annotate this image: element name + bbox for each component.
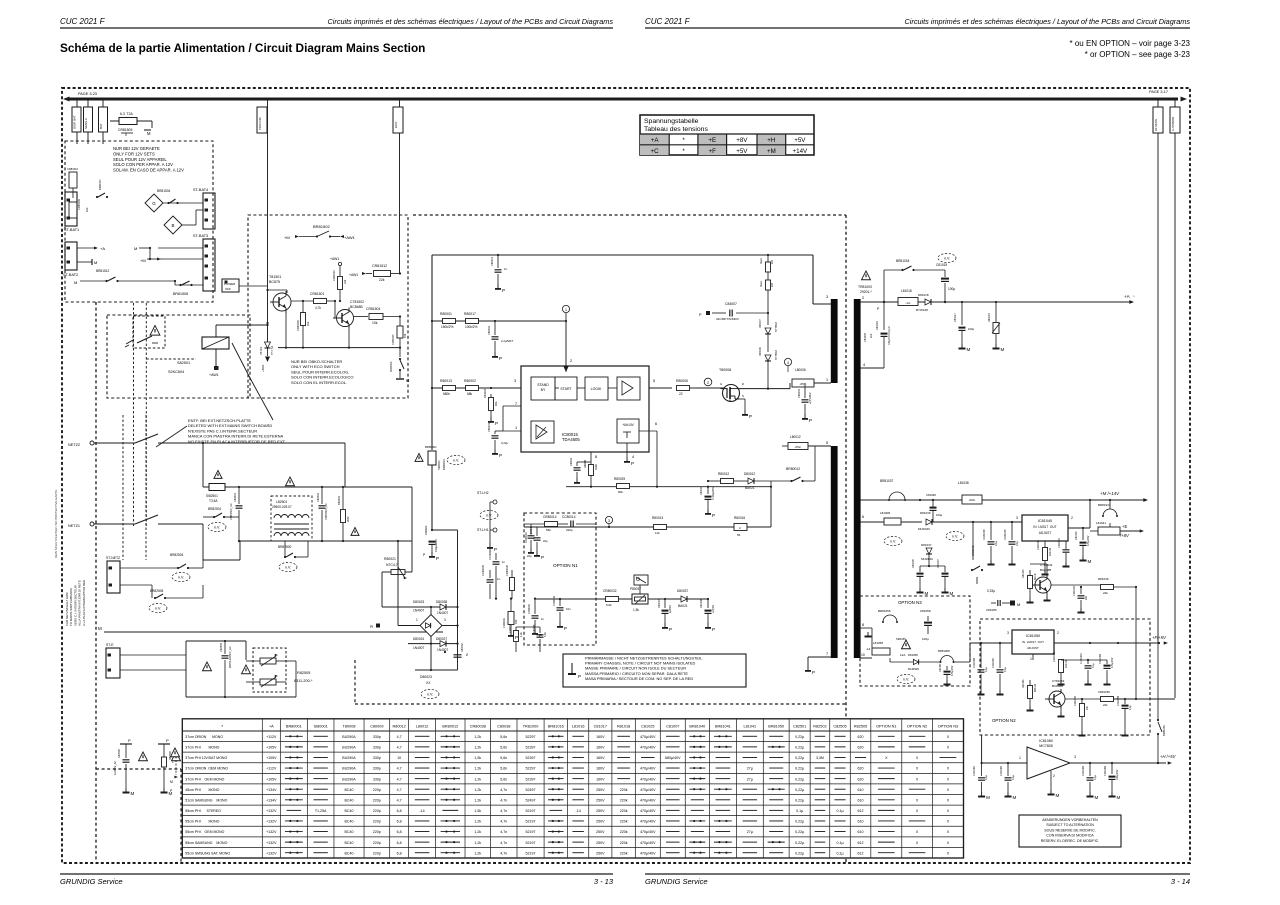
svg-text:6,8: 6,8 (397, 830, 402, 834)
svg-text:BR81050: BR81050 (768, 725, 784, 729)
svg-text:P: P (539, 633, 542, 638)
svg-text:60k: 60k (618, 490, 623, 494)
svg-text:-14: -14 (866, 647, 871, 651)
snubber capacitor C84007 (699, 302, 768, 321)
svg-text:4,7n: 4,7n (500, 841, 507, 845)
svg-text:10n: 10n (566, 607, 571, 611)
warning triangle relay (150, 326, 160, 336)
svg-text:DISP. BAT: DISP. BAT (73, 115, 77, 129)
transformer pin8 wire (860, 628, 872, 651)
svg-text:+112V: +112V (266, 735, 277, 739)
svg-text:0,22µ: 0,22µ (795, 735, 804, 739)
svg-text:BR81941: BR81941 (1098, 503, 1111, 507)
svg-text:220p: 220p (373, 851, 381, 855)
capacitor CR81052 470u (1099, 653, 1114, 685)
svg-text:33n/MKT/S/630V: 33n/MKT/S/630V (716, 317, 739, 321)
footer left: page number (594, 877, 614, 886)
svg-text:ST-BAT2: ST-BAT2 (63, 273, 78, 277)
svg-text:22k: 22k (343, 279, 347, 284)
svg-text:C80037: C80037 (658, 599, 661, 608)
svg-text:OPTION N3: OPTION N3 (898, 600, 922, 605)
battery option dashed box (65, 141, 213, 302)
svg-text:250V: 250V (596, 798, 605, 802)
jumper BR81048 (971, 522, 983, 584)
capacitor R82508 with P and M (158, 738, 173, 796)
svg-text:P: P (631, 461, 634, 466)
resistor R81043 (1022, 569, 1037, 604)
svg-text:CR80026: CR80026 (505, 564, 509, 576)
vertical text: to mains switchboard (65, 579, 86, 626)
jumper BR81037 (880, 479, 906, 501)
svg-text:CR81059: CR81059 (1098, 690, 1110, 694)
capacitor C81037 (920, 554, 954, 596)
svg-text:+Ub14V: +Ub14V (622, 423, 634, 427)
resistor CR81509 (69, 198, 89, 218)
svg-text:BR81055: BR81055 (878, 609, 891, 613)
svg-text:* or OPTION – see page 3-23: * or OPTION – see page 3-23 (1085, 50, 1191, 59)
svg-text:M: M (1001, 347, 1005, 352)
svg-text:C82505: C82505 (219, 642, 223, 652)
svg-text:Tableau des tensions: Tableau des tensions (644, 126, 708, 133)
svg-text:M: M (1017, 602, 1020, 607)
svg-text:52197: 52197 (526, 820, 536, 824)
terminal NETZ2 (68, 441, 135, 447)
svg-text:4,7: 4,7 (397, 746, 402, 750)
svg-text:0: 0 (125, 133, 127, 137)
wire CT81043 collector (1030, 541, 1047, 575)
fuse SI81055 (896, 637, 911, 657)
svg-text:0,1µ: 0,1µ (985, 667, 988, 672)
svg-text:4,7n: 4,7n (500, 809, 507, 813)
wire IC81050 out (1054, 642, 1160, 644)
svg-text:37cm PHI OEM MONO: 37cm PHI OEM MONO (185, 777, 224, 781)
eco bottom rail (278, 347, 401, 349)
variants table row 37cm PHI 12V/SAT MONO (185, 756, 956, 760)
svg-text:BR81512: BR81512 (96, 269, 110, 273)
svg-text:470µ/40V: 470µ/40V (640, 767, 656, 771)
svg-text:470µ/40V: 470µ/40V (640, 735, 656, 739)
capacitor CC81084 (1000, 763, 1017, 800)
label R82505 (294, 671, 313, 683)
hot area pocket dashed borders (96, 660, 355, 862)
svg-text:27µ: 27µ (747, 830, 753, 834)
svg-text:11k: 11k (655, 531, 660, 535)
connector box U-STANDBY (1170, 107, 1180, 133)
resistor R81019 (988, 302, 1005, 352)
diode D80037 BAV21 (677, 589, 688, 608)
svg-text:R81004: R81004 (483, 388, 487, 398)
svg-text:NETZ1: NETZ1 (68, 524, 80, 528)
svg-text:SOLAM. EN CASO DE APPAR. A 12V: SOLAM. EN CASO DE APPAR. A 12V (113, 168, 184, 173)
jumper BR81058 (919, 649, 970, 663)
svg-text:2n2: 2n2 (869, 333, 873, 338)
diode D80007 BYT56M (759, 319, 778, 352)
svg-text:IC81080: IC81080 (1039, 739, 1053, 743)
svg-text:C84007: C84007 (725, 302, 737, 306)
connector ST-NETZ (106, 556, 120, 593)
svg-text:ST-NETZ: ST-NETZ (106, 556, 120, 560)
svg-text:P: P (166, 738, 169, 743)
svg-text:* ou EN OPTION – voir page 3-2: * ou EN OPTION – voir page 3-23 (1070, 39, 1191, 48)
capacitor C80032 (454, 643, 470, 658)
IC internal arrows (514, 379, 657, 459)
svg-text:610: 610 (858, 820, 864, 824)
svg-text:C80009: C80009 (370, 725, 383, 729)
svg-text:n.V.: n.V. (285, 566, 291, 570)
svg-text:+5V: +5V (736, 148, 748, 155)
svg-text:100k/2%: 100k/2% (465, 325, 478, 329)
svg-text:5,6n: 5,6n (500, 746, 507, 750)
svg-text:P: P (515, 635, 518, 640)
transformer pin labels left (826, 295, 828, 656)
variants table row 55cm PHI OEM MONO (185, 830, 949, 834)
svg-text:0,1µ: 0,1µ (1015, 540, 1019, 546)
svg-text:1,5k: 1,5k (474, 809, 481, 813)
svg-text:-14: -14 (419, 809, 424, 813)
node 3 circle (605, 516, 612, 528)
switch S82501 contact (125, 336, 158, 347)
svg-text:OPTION N2: OPTION N2 (907, 725, 927, 729)
svg-text:BR81507: BR81507 (98, 179, 102, 190)
svg-text:CR81500: CR81500 (296, 319, 300, 331)
svg-text:52397: 52397 (526, 756, 536, 760)
page continuation bus (thick top line) (68, 97, 1178, 100)
svg-text:n.V.: n.V. (427, 693, 433, 697)
connector ST-BAT3 (193, 234, 215, 291)
relay area dashed box (107, 315, 250, 398)
svg-text:8: 8 (862, 623, 864, 627)
svg-text:52397: 52397 (526, 746, 536, 750)
svg-text:4: 4 (787, 361, 789, 365)
fuse SI82501 T3,5A (206, 471, 225, 504)
svg-text:160V: 160V (596, 767, 605, 771)
svg-text:BC848B: BC848B (350, 305, 363, 309)
svg-text:P: P (495, 421, 498, 426)
svg-text:BYW128: BYW128 (916, 308, 928, 312)
svg-text:5: 5 (653, 379, 655, 383)
svg-text:R80006: R80006 (676, 379, 688, 383)
svg-text:10: 10 (861, 653, 865, 657)
IC block error amp (531, 421, 554, 443)
svg-text:+M: +M (284, 235, 290, 240)
resistor CR80026 (505, 564, 515, 599)
IC block START (555, 377, 577, 400)
svg-text:C81057: C81057 (939, 663, 942, 672)
svg-text:220k: 220k (620, 788, 628, 792)
svg-text:D80006: D80006 (759, 347, 762, 356)
svg-text:220p: 220p (373, 788, 381, 792)
svg-text:160V: 160V (596, 746, 605, 750)
svg-text:0,1µ: 0,1µ (836, 809, 843, 813)
svg-text:0,1µ: 0,1µ (1012, 775, 1015, 780)
svg-text:6,8: 6,8 (397, 820, 402, 824)
svg-text:0,22µ: 0,22µ (501, 441, 508, 445)
svg-text:T80008: T80008 (719, 368, 731, 372)
svg-text:0,22µ: 0,22µ (795, 830, 804, 834)
svg-text:0R68: 0R68 (595, 464, 598, 470)
arrow +H +5V (1160, 754, 1177, 765)
regulator IC81050 LM317 (1007, 630, 1059, 661)
capacitor C80012 (570, 457, 591, 484)
svg-text:6,8: 6,8 (397, 851, 402, 855)
svg-text:37cm ORION OEM MONO: 37cm ORION OEM MONO (185, 767, 228, 771)
svg-text:BR81503: BR81503 (390, 361, 393, 372)
svg-text:+M: +M (767, 148, 776, 155)
svg-text:C81005: C81005 (863, 332, 867, 342)
svg-text:C81085: C81085 (986, 608, 997, 612)
hot area left dashed border (95, 302, 97, 862)
svg-text:680µ/40V: 680µ/40V (665, 756, 681, 760)
svg-text:CR81041: CR81041 (1037, 539, 1040, 550)
svg-text:+AW1: +AW1 (209, 373, 219, 377)
variants table row 51cm SAMSUNG MONO (185, 798, 949, 802)
svg-text:37cm ORION MONO: 37cm ORION MONO (185, 735, 223, 739)
svg-text:5,6n: 5,6n (500, 756, 507, 760)
svg-text:C82505: C82505 (833, 725, 846, 729)
svg-text:220/1%: 220/1% (1049, 547, 1052, 556)
diode D81018 BYW128 (916, 293, 931, 312)
svg-text:250V: 250V (596, 788, 605, 792)
svg-text:+AW1: +AW1 (330, 257, 339, 261)
svg-text:0,22µ: 0,22µ (795, 841, 804, 845)
wire: POWER-OFF drop (267, 100, 269, 215)
svg-text:GRUNDIG Service: GRUNDIG Service (60, 877, 123, 886)
svg-text:220p: 220p (373, 820, 381, 824)
svg-text:M: M (986, 795, 990, 800)
svg-text:C81016: C81016 (876, 321, 879, 330)
svg-text:1,2k: 1,2k (474, 841, 481, 845)
svg-text:P: P (812, 670, 815, 675)
svg-text:3: 3 (1016, 516, 1018, 520)
svg-text:M: M (406, 378, 409, 383)
mains switch contact lower (135, 515, 203, 524)
svg-text:620: 620 (858, 746, 864, 750)
diode D80012 BAV21 (707, 472, 771, 490)
svg-text:1n: 1n (504, 267, 508, 271)
svg-text:MUR920: MUR920 (908, 667, 919, 671)
svg-text:27µ: 27µ (747, 777, 753, 781)
relay actuator line (232, 343, 273, 420)
svg-text:55cm SAMSUNG MONO: 55cm SAMSUNG MONO (185, 841, 227, 845)
svg-text:250V: 250V (596, 809, 605, 813)
svg-text:220k: 220k (620, 798, 628, 802)
svg-text:D80012: D80012 (744, 472, 755, 476)
svg-text:+112V: +112V (266, 767, 277, 771)
svg-text:LOGIK: LOGIK (591, 387, 602, 391)
svg-text:5,6n: 5,6n (500, 777, 507, 781)
svg-text:Spannungstabelle: Spannungstabelle (644, 118, 699, 125)
svg-text:330p: 330p (373, 735, 381, 739)
svg-text:BAV21: BAV21 (745, 486, 755, 490)
transformer TR81000 primary core bar (831, 299, 838, 658)
warning triangle degauss 1 (203, 662, 212, 671)
variants table row 55cm SMSUNG SAT. MONO (185, 851, 949, 855)
degauss loop wires (186, 641, 296, 697)
footer rule left (60, 873, 613, 875)
primary-ground note box (563, 654, 746, 687)
svg-text:M: M (134, 246, 137, 251)
transistor CT81043 BC848B (1031, 563, 1053, 602)
regulator IC81040 LM317 (1016, 515, 1073, 541)
svg-text:37cm PHI MONO: 37cm PHI MONO (185, 746, 219, 750)
svg-text:R80002: R80002 (464, 379, 476, 383)
svg-text:CR80032: CR80032 (603, 589, 617, 593)
svg-text:PAGE 3-23: PAGE 3-23 (78, 92, 97, 96)
svg-text:470µ/40V: 470µ/40V (640, 820, 656, 824)
svg-text:1,2k: 1,2k (474, 767, 481, 771)
inductor L80006 (792, 368, 814, 387)
arrow +M +14V (1100, 491, 1148, 502)
resistor CR81501 4,7k (291, 292, 336, 310)
wire mains AC to bridge 1 (382, 487, 412, 607)
capacitor CC81038 0,1u (983, 522, 998, 566)
svg-text:L81038: L81038 (958, 481, 969, 485)
svg-text:52197: 52197 (526, 851, 536, 855)
svg-text:D80023: D80023 (420, 675, 432, 679)
transformer pin7 wire (805, 657, 831, 675)
svg-text:n.V.: n.V. (903, 678, 909, 682)
bridge rectifier D80022-27 (408, 600, 458, 671)
resistor CR81512 22k (349, 264, 401, 282)
svg-text:4,7: 4,7 (397, 735, 402, 739)
svg-text:4,7n: 4,7n (500, 798, 507, 802)
wire: U-STANDBY bus drop (1174, 100, 1176, 698)
svg-text:M: M (1117, 795, 1121, 800)
capacitor C81038 100u (926, 493, 943, 522)
footer left: service label (60, 877, 123, 886)
variants table row 37cm PHI OEM MONO (185, 777, 949, 781)
resistor R82502 (337, 486, 359, 542)
connector box BAT (99, 107, 108, 132)
svg-text:C81038: C81038 (926, 493, 936, 497)
svg-text:52197: 52197 (526, 841, 536, 845)
svg-text:1,2k: 1,2k (474, 830, 481, 834)
svg-text:Riacc: Riacc (760, 280, 763, 287)
svg-text:0,1µ: 0,1µ (1094, 775, 1097, 780)
svg-text:BR80012: BR80012 (442, 725, 458, 729)
svg-text:3: 3 (608, 519, 610, 523)
svg-text:3: 3 (1007, 631, 1009, 635)
svg-text:MC7805: MC7805 (1039, 744, 1053, 748)
svg-text:52197: 52197 (526, 830, 536, 834)
svg-text:330p: 330p (373, 767, 381, 771)
capacitor CC81081 (973, 763, 990, 800)
svg-text:BC40: BC40 (344, 820, 353, 824)
IC pin2 entry arrow (564, 366, 569, 372)
schematic outer dashed border (62, 88, 1190, 863)
svg-text:+A: +A (1124, 294, 1131, 299)
svg-text:BR81018: BR81018 (896, 259, 910, 263)
svg-text:4,7k: 4,7k (315, 306, 321, 310)
inductor L81018 (898, 289, 918, 306)
svg-text:C80015: C80015 (797, 388, 801, 398)
svg-text:1N4007: 1N4007 (437, 648, 448, 652)
capacitor C80022 (B+ bulk) (423, 525, 439, 561)
svg-text:P: P (564, 626, 567, 631)
svg-text:BR80012: BR80012 (786, 467, 800, 471)
svg-text:CT81502: CT81502 (350, 300, 364, 304)
svg-text:ECO: ECO (394, 121, 398, 128)
svg-text:ONLY FOR 12V SETS: ONLY FOR 12V SETS (113, 151, 155, 156)
resistor R80016 2/56 (734, 516, 747, 537)
svg-text:CR81512: CR81512 (372, 264, 387, 268)
svg-text:6,8: 6,8 (397, 809, 402, 813)
alterations note box (1019, 815, 1121, 847)
svg-text:CC81081: CC81081 (973, 765, 976, 776)
svg-text:P: P (499, 453, 502, 458)
IC pin4 ground (624, 443, 634, 466)
note: only with eco switch (291, 359, 353, 385)
arrow to page 3-23 (63, 92, 97, 102)
svg-text:⌁: ⌁ (1133, 294, 1135, 298)
svg-text:BY: BY (541, 388, 546, 392)
svg-text:1,5k: 1,5k (633, 608, 639, 612)
wire R80013 row (432, 387, 521, 389)
svg-text:6,3 T2A: 6,3 T2A (120, 112, 133, 116)
svg-text:P: P (669, 627, 672, 632)
arrow +M at fuse (144, 121, 152, 136)
transformer pin5 stub (815, 445, 831, 447)
wire B+ to bridge (431, 529, 459, 670)
switch BR81503 (390, 358, 409, 383)
svg-text:2: 2 (570, 359, 572, 363)
svg-text:CC80032: CC80032 (553, 595, 556, 606)
wires option n3 (872, 658, 913, 662)
inductor L81041 (1090, 521, 1140, 535)
svg-text:M: M (94, 260, 97, 265)
svg-text:4,7n: 4,7n (500, 820, 507, 824)
svg-text:4,7: 4,7 (397, 798, 402, 802)
eco option dashed box (248, 215, 408, 398)
svg-text:M: M (170, 780, 173, 784)
svg-text:68k: 68k (467, 392, 473, 396)
svg-text:Riacc: Riacc (760, 257, 763, 264)
svg-text:R80029: R80029 (614, 477, 625, 481)
+A rail wire (860, 301, 1130, 303)
wire top right to pin3 (813, 255, 831, 304)
jumper BR82504 (170, 553, 203, 582)
capacitor C81015 100u (936, 263, 955, 302)
IC80015 label (562, 432, 580, 442)
capacitor CC80013 22p (525, 524, 535, 558)
resistor CR81059 22k (1065, 690, 1175, 707)
svg-text:1n/400V_AC: 1n/400V_AC (114, 761, 117, 775)
svg-text:CC81051: CC81051 (992, 657, 995, 668)
resistor R80009 60k (614, 477, 630, 494)
capacitor C82505 (219, 640, 232, 698)
svg-text:BR81016: BR81016 (548, 725, 564, 729)
switch BR81508 (173, 281, 193, 296)
svg-text:680/1%: 680/1% (1034, 683, 1037, 692)
resistor R80006 22 (649, 379, 697, 396)
svg-text:CC80026: CC80026 (481, 564, 485, 576)
svg-text:0,22µ: 0,22µ (795, 788, 804, 792)
svg-text:4: 4 (632, 455, 634, 459)
capacitor C82502 (316, 486, 328, 542)
capacitor C80014 22p drop (530, 527, 548, 560)
resistor R80017 100k/2% (464, 312, 479, 329)
IC block STAND BY (531, 377, 555, 400)
svg-text:D81037: D81037 (921, 543, 932, 547)
page header left rule (60, 27, 613, 29)
svg-text:220p: 220p (373, 830, 381, 834)
svg-text:T3,5A: T3,5A (209, 499, 218, 503)
svg-text:R80013: R80013 (440, 379, 452, 383)
svg-text:D80023: D80023 (413, 600, 424, 604)
svg-text:SOUS RESERVE DE MODIFIC.: SOUS RESERVE DE MODIFIC. (1044, 828, 1095, 832)
svg-text:52497: 52497 (526, 788, 536, 792)
svg-text:n.V.: n.V. (178, 576, 184, 580)
